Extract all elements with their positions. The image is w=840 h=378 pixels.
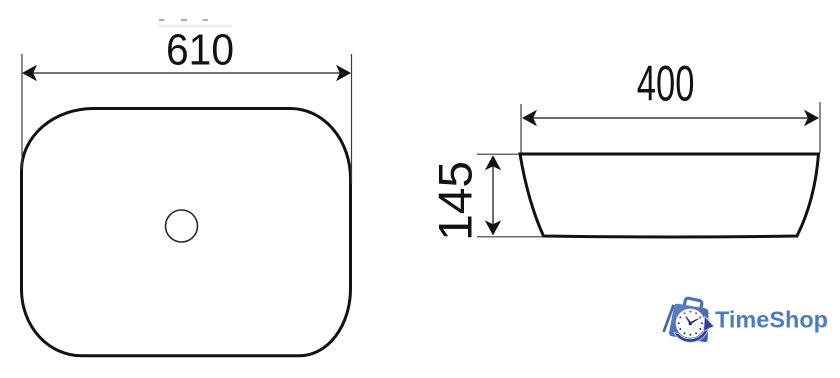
logo clock center dot [689, 322, 692, 325]
extension line right of 610 [351, 54, 353, 184]
extension line right of 400 [819, 102, 821, 153]
basin side view outline [520, 154, 819, 237]
extension line left of 610 [21, 54, 23, 169]
extension line bottom of 145 [477, 236, 543, 238]
dimension line 400 [524, 117, 817, 119]
logo swoosh arrowhead [704, 317, 714, 332]
svg-text:610: 610 [166, 26, 234, 75]
stray dash 2 [181, 19, 187, 21]
logo bag stripe [662, 304, 675, 332]
arrowhead 400 right [804, 110, 819, 126]
arrowhead 610 right [336, 65, 351, 81]
extension line left of 400 [520, 104, 522, 153]
logo clock hour hand [685, 316, 691, 324]
arrowhead 400 left [522, 110, 537, 126]
arrowhead 145 bottom [485, 220, 501, 235]
dimension line 610 [24, 72, 349, 74]
logo swoosh band [674, 318, 709, 342]
drain hole [166, 210, 198, 242]
faint smudge [159, 25, 232, 28]
dimension line 145 [492, 157, 494, 233]
logo clock face [676, 309, 705, 338]
svg-text:400: 400 [637, 56, 695, 112]
stray dash 3 [203, 19, 209, 21]
extension line top of 145 [477, 153, 519, 155]
logo clock minute hand [690, 318, 699, 324]
stray dash 1 [159, 19, 165, 21]
svg-text:TimeShop: TimeShop [715, 307, 828, 333]
logo bag handle [683, 298, 702, 313]
basin top view outline [22, 109, 351, 356]
svg-text:145: 145 [430, 161, 483, 241]
arrowhead 610 left [22, 65, 37, 81]
logo clock ticks [678, 311, 703, 336]
logo bag body [669, 304, 708, 342]
arrowhead 145 top [485, 155, 501, 170]
